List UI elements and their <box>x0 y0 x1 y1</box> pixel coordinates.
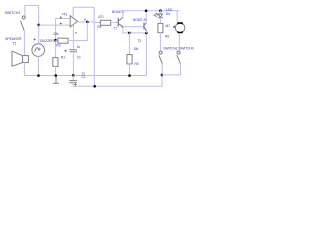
node A junction <box>54 39 57 42</box>
wire emitter horizontal <box>123 32 146 34</box>
plus mark buzzer <box>34 39 36 41</box>
LED D1 <box>155 13 163 17</box>
wire op-amp bottom supply down <box>72 25 74 49</box>
svg-text:1u: 1u <box>77 45 81 49</box>
bottom rail <box>73 75 162 86</box>
resistor 10k horizontal <box>58 38 68 43</box>
ground symbol on mid rail <box>53 76 58 84</box>
wire C1 bottom to mid rail <box>72 52 74 75</box>
node T2 collector join <box>145 32 148 35</box>
op-amp U1 741 <box>70 16 77 27</box>
svg-text:10k: 10k <box>53 32 59 36</box>
buzzer BZ1 <box>32 44 45 57</box>
pin mark 6 <box>84 19 85 20</box>
resistor 470 <box>100 20 110 25</box>
svg-text:R3: R3 <box>56 44 60 48</box>
wire C2 bottom to bottom rail <box>72 83 74 86</box>
svg-text:R1: R1 <box>61 55 65 59</box>
arrow T1 emitter <box>121 25 123 27</box>
wire rail to LED <box>159 11 161 14</box>
wire T1 emitter down <box>122 27 124 33</box>
wire R6 to switch2 <box>159 33 161 51</box>
svg-text:R6: R6 <box>165 34 169 38</box>
top rail <box>123 10 179 12</box>
lamp L1 <box>175 23 185 33</box>
transistor T2 BC557 <box>144 23 146 31</box>
node buzzer bottom <box>37 74 40 77</box>
wire T1 emitter to T2 base <box>123 26 144 28</box>
node bottom rail junction <box>93 85 96 88</box>
svg-text:BUZZER: BUZZER <box>40 39 54 43</box>
svg-text:R5: R5 <box>134 62 138 66</box>
wire buzzer bottom to mid rail <box>37 57 39 76</box>
wire T1 collector to top rail <box>122 11 124 18</box>
wire R1 bottom to mid rail <box>54 66 56 75</box>
wire 470 right stub to T1 base <box>111 21 118 23</box>
wire node A vertical to inverting input <box>56 19 71 58</box>
wire feedback down and left to 10k <box>68 22 87 41</box>
node T1 emitter junction <box>122 26 124 28</box>
wire op-amp top supply loop <box>73 7 94 22</box>
wire noninverting input <box>39 24 70 26</box>
capacitor C1 <box>70 50 77 52</box>
svg-text:T1: T1 <box>114 27 118 31</box>
pin mark minus <box>60 16 62 18</box>
svg-text:C1: C1 <box>77 55 81 59</box>
switch SW1 <box>21 16 26 30</box>
wire switch1 top loop to buzzer node <box>25 5 39 43</box>
svg-text:SWITCH1: SWITCH1 <box>5 11 21 15</box>
wire switch2 bottom <box>161 64 163 75</box>
svg-text:SPEAKER: SPEAKER <box>5 37 22 41</box>
svg-text:T2: T2 <box>137 39 141 43</box>
resistor R6 <box>158 23 163 32</box>
wire rail right down to lamp <box>176 11 178 24</box>
wire 470 left stub <box>94 21 100 23</box>
svg-text:D4: D4 <box>166 12 170 16</box>
plus mark C2 <box>74 84 76 86</box>
switch SW3 <box>177 51 180 64</box>
node output junction <box>86 21 89 24</box>
node rail T2 <box>145 9 148 12</box>
svg-text:SWITCH3: SWITCH3 <box>179 47 193 51</box>
pin mark plus <box>60 23 62 25</box>
svg-text:470: 470 <box>98 15 104 19</box>
wire speaker bottom to mid rail <box>24 31 146 76</box>
svg-text:4k7: 4k7 <box>165 24 170 28</box>
wire LED to R6 <box>159 18 161 24</box>
wire switch1 bottom to speaker <box>23 30 25 55</box>
wire op-amp output <box>78 21 95 23</box>
node R5 bottom <box>128 74 131 77</box>
wire output node down to bottom rail <box>93 22 95 86</box>
node switch bottom junction <box>161 74 164 77</box>
wire R5 bottom to mid rail <box>128 64 130 76</box>
wire 10k left stub <box>56 40 58 42</box>
node C1 bottom <box>72 74 75 77</box>
svg-text:T1: T1 <box>12 41 16 45</box>
svg-text:SWITCH2: SWITCH2 <box>163 47 177 51</box>
wire branch down to R5 <box>128 33 130 55</box>
resistor R5 vertical <box>127 55 132 64</box>
pin mark 4 <box>75 32 77 33</box>
wire switch3 bottom link <box>162 64 181 75</box>
svg-text:C2: C2 <box>81 75 85 79</box>
wire T2 emitter to top rail <box>145 11 147 23</box>
switch SW2 <box>159 51 162 64</box>
speaker LS1 <box>12 51 28 66</box>
node rail LED <box>159 9 162 12</box>
arrow T2 emitter <box>145 29 147 31</box>
svg-text:10k: 10k <box>133 47 138 51</box>
node R1 bottom <box>55 74 58 77</box>
resistor R1 vertical below node A <box>53 58 58 67</box>
wire lamp to switch3 <box>178 34 180 52</box>
node T1 emitter branch <box>128 32 131 35</box>
svg-text:741: 741 <box>62 12 68 16</box>
wire T2 collector down <box>145 30 147 33</box>
svg-text:BC557-40: BC557-40 <box>133 18 147 22</box>
plus mark C1 <box>65 50 67 52</box>
transistor T1 BC547C <box>118 17 123 27</box>
node buzzer top junction <box>37 24 40 27</box>
capacitor C2 below mid rail <box>72 76 74 81</box>
